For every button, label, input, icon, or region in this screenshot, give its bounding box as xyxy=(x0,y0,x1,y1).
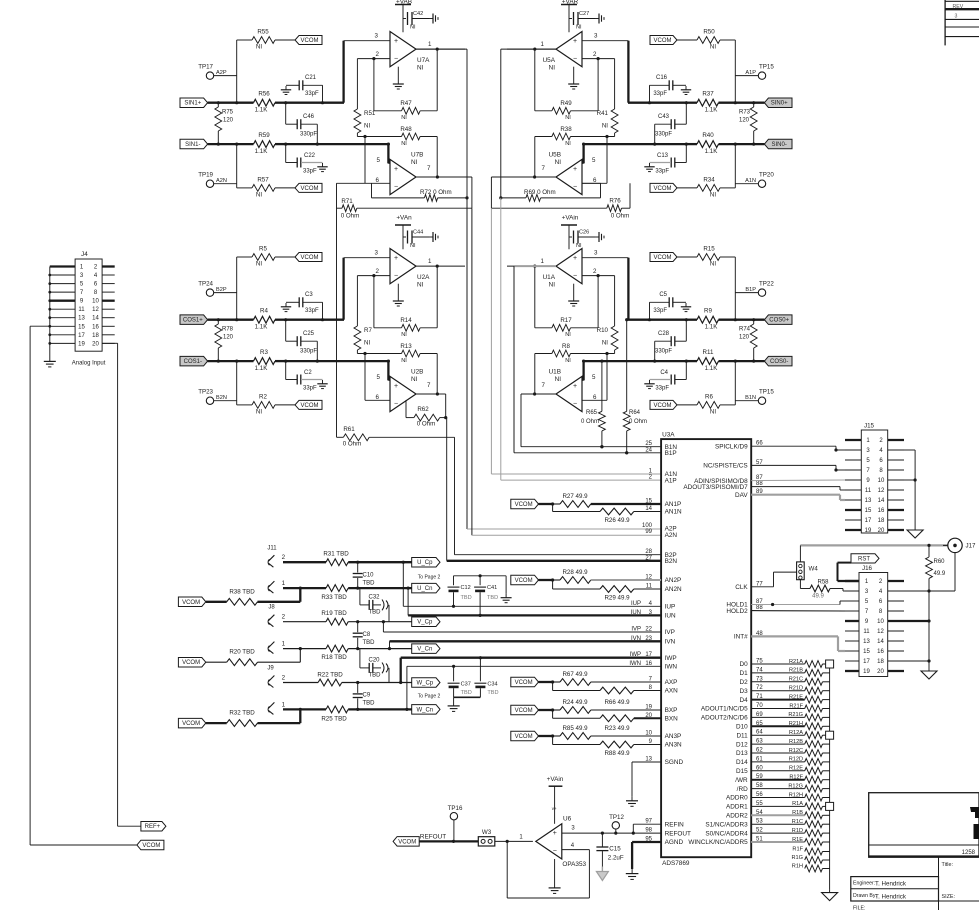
svg-text:SGND: SGND xyxy=(665,759,684,766)
svg-text:v+: v+ xyxy=(552,806,557,811)
svg-text:TP23: TP23 xyxy=(198,389,213,396)
ground xyxy=(501,594,512,603)
svg-text:0 Ohm: 0 Ohm xyxy=(611,213,630,220)
svg-text:18: 18 xyxy=(877,659,884,665)
wire xyxy=(904,450,917,527)
svg-text:S1/NC/ADDR3: S1/NC/ADDR3 xyxy=(705,821,748,828)
svg-text:R64: R64 xyxy=(629,410,641,416)
svg-text:5: 5 xyxy=(592,374,596,381)
svg-text:+: + xyxy=(394,255,398,262)
svg-text:330pF: 330pF xyxy=(655,349,672,355)
svg-text:6: 6 xyxy=(376,177,380,184)
svg-text:15: 15 xyxy=(863,649,870,655)
ground xyxy=(595,232,604,242)
resistor R58 xyxy=(800,580,859,600)
svg-text:A2N: A2N xyxy=(216,178,227,184)
svg-text:IWP: IWP xyxy=(665,655,677,662)
svg-text:NI: NI xyxy=(602,340,608,347)
svg-text:VCOM: VCOM xyxy=(515,734,533,740)
svg-text:TP15: TP15 xyxy=(759,64,774,71)
capacitor C28 xyxy=(653,320,686,363)
svg-text:TP17: TP17 xyxy=(198,64,213,71)
wire xyxy=(582,258,628,320)
wire xyxy=(387,360,390,381)
svg-text:120: 120 xyxy=(739,118,750,124)
svg-text:AN3N: AN3N xyxy=(665,742,682,749)
svg-text:−: − xyxy=(394,273,398,280)
svg-text:−: − xyxy=(573,401,577,408)
resistor R8 xyxy=(535,343,615,394)
ground xyxy=(681,86,691,95)
svg-text:R47: R47 xyxy=(400,100,412,107)
jumper pads xyxy=(826,660,834,810)
svg-text:R88 49.9: R88 49.9 xyxy=(604,750,630,757)
svg-text:R55: R55 xyxy=(257,29,269,36)
svg-text:R49: R49 xyxy=(560,100,572,107)
resistor R67 / resistor R24 (AX input) xyxy=(511,671,661,694)
ground xyxy=(568,67,579,89)
svg-text:NI: NI xyxy=(364,340,370,347)
svg-text:19: 19 xyxy=(863,669,870,675)
svg-text:−: − xyxy=(573,56,577,63)
svg-text:J16: J16 xyxy=(862,565,873,572)
capacitor C44 xyxy=(403,230,429,250)
svg-text:TBD: TBD xyxy=(363,581,376,587)
svg-text:1: 1 xyxy=(282,701,286,708)
wire xyxy=(416,49,469,199)
svg-text:VCOM: VCOM xyxy=(301,255,319,261)
ground xyxy=(626,869,639,879)
svg-text:VCOM: VCOM xyxy=(515,502,533,508)
wire xyxy=(888,553,955,591)
capacitor C46 xyxy=(286,103,319,146)
IC U3A left pin numbers xyxy=(642,441,653,842)
resistor R33 xyxy=(283,585,412,601)
svg-text:NI: NI xyxy=(565,115,571,121)
resistor R18 xyxy=(283,645,412,661)
wire xyxy=(235,360,238,405)
ground xyxy=(822,890,838,901)
resistor R37 xyxy=(628,91,764,114)
resistor R71 xyxy=(337,183,472,437)
svg-text:R1D: R1D xyxy=(792,828,803,834)
svg-text:5: 5 xyxy=(377,157,381,164)
wire xyxy=(734,257,737,321)
capacitor C26 xyxy=(569,230,595,250)
svg-text:R7: R7 xyxy=(364,327,372,334)
svg-text:U7A: U7A xyxy=(417,57,430,64)
svg-text:TP15: TP15 xyxy=(759,389,774,396)
svg-text:Engineer:: Engineer: xyxy=(853,881,875,887)
svg-text:VCOM: VCOM xyxy=(182,721,200,727)
flag VCOM xyxy=(295,183,322,192)
svg-text:R75: R75 xyxy=(222,110,234,116)
svg-text:D12: D12 xyxy=(736,741,748,748)
resistor R78 xyxy=(215,320,234,361)
flag V_Cp xyxy=(412,617,440,627)
resistor R6 xyxy=(677,394,735,416)
svg-text:+: + xyxy=(573,166,577,173)
svg-text:J17: J17 xyxy=(966,543,977,550)
svg-text:C16: C16 xyxy=(656,75,668,81)
capacitor C22 xyxy=(286,144,323,174)
svg-text:R26 49.9: R26 49.9 xyxy=(604,517,630,524)
svg-text:NI: NI xyxy=(565,332,571,338)
wire xyxy=(829,664,831,890)
svg-text:AN2P: AN2P xyxy=(665,577,682,584)
resistor R5 xyxy=(237,246,295,268)
wire xyxy=(734,360,737,405)
svg-text:R25 TBD: R25 TBD xyxy=(321,716,347,723)
svg-text:U2B: U2B xyxy=(411,369,423,376)
op-amp U7A xyxy=(375,32,432,72)
svg-text:NI: NI xyxy=(555,376,562,383)
svg-text:+: + xyxy=(573,38,577,45)
svg-text:73: 73 xyxy=(756,676,763,682)
wire xyxy=(800,544,948,547)
flag W_Cn xyxy=(412,705,440,715)
svg-text:D4: D4 xyxy=(740,697,749,704)
svg-text:COS1+: COS1+ xyxy=(183,318,203,324)
op-amp U5B xyxy=(542,152,597,195)
svg-text:C43: C43 xyxy=(658,114,670,120)
svg-text:V_Cn: V_Cn xyxy=(417,647,432,653)
wire xyxy=(30,326,137,845)
resistor R64 xyxy=(623,318,647,454)
svg-text:27: 27 xyxy=(645,555,652,561)
svg-text:W4: W4 xyxy=(809,566,819,573)
svg-text:VCOM: VCOM xyxy=(654,186,672,192)
svg-text:33pF: 33pF xyxy=(305,91,319,97)
wire xyxy=(416,266,465,396)
op-amp U7B xyxy=(376,152,431,195)
svg-text:R21A: R21A xyxy=(789,659,803,665)
svg-text:120: 120 xyxy=(223,335,234,341)
svg-text:3: 3 xyxy=(594,250,598,257)
svg-text:AN1N: AN1N xyxy=(665,509,682,516)
wire xyxy=(734,143,737,188)
wire xyxy=(433,394,446,418)
svg-text:HOLD2: HOLD2 xyxy=(726,608,748,615)
wire xyxy=(751,601,845,651)
svg-text:+: + xyxy=(573,255,577,262)
resistor R9 xyxy=(628,308,764,331)
svg-text:R12A: R12A xyxy=(789,730,803,736)
wire xyxy=(582,143,585,164)
svg-text:330pF: 330pF xyxy=(655,132,672,138)
svg-text:C8: C8 xyxy=(363,632,371,638)
svg-text:R29 49.9: R29 49.9 xyxy=(604,594,630,601)
svg-text:33pF: 33pF xyxy=(303,386,317,392)
svg-text:R12F: R12F xyxy=(789,775,803,781)
wire xyxy=(554,859,556,884)
svg-text:+: + xyxy=(394,383,398,390)
svg-text:19: 19 xyxy=(78,341,85,347)
svg-text:14: 14 xyxy=(92,316,99,322)
resistor R3 xyxy=(208,349,389,372)
svg-text:0 Ohm: 0 Ohm xyxy=(629,419,647,425)
svg-text:R22 TBD: R22 TBD xyxy=(317,671,343,678)
svg-text:C25: C25 xyxy=(303,331,315,337)
svg-text:R1G: R1G xyxy=(791,855,803,861)
svg-text:R65: R65 xyxy=(586,410,598,416)
svg-text:C37: C37 xyxy=(461,681,471,687)
svg-text:REFOUT: REFOUT xyxy=(420,834,446,841)
svg-text:COS0-: COS0- xyxy=(770,359,788,365)
svg-text:R31 TBD: R31 TBD xyxy=(323,551,349,558)
svg-text:5: 5 xyxy=(377,374,381,381)
svg-text:NI: NI xyxy=(602,123,608,130)
flag COS0- xyxy=(764,356,792,366)
svg-text:D11: D11 xyxy=(736,732,748,739)
revision table xyxy=(945,0,979,45)
wire xyxy=(499,49,556,199)
svg-text:12: 12 xyxy=(92,307,99,313)
wire xyxy=(734,40,737,104)
resistor R4 xyxy=(208,308,344,331)
svg-text:R1C: R1C xyxy=(792,819,803,825)
svg-text:W_Cn: W_Cn xyxy=(416,707,433,713)
svg-text:ADDR1: ADDR1 xyxy=(726,804,748,811)
svg-text:R27 49.9: R27 49.9 xyxy=(562,493,588,500)
svg-text:51: 51 xyxy=(756,837,763,843)
svg-text:1: 1 xyxy=(428,258,432,265)
svg-text:R48: R48 xyxy=(400,126,412,133)
svg-text:R40: R40 xyxy=(702,132,714,139)
svg-text:59: 59 xyxy=(756,774,763,780)
svg-text:R62: R62 xyxy=(417,406,429,413)
svg-text:SIN0+: SIN0+ xyxy=(771,101,788,107)
svg-text:SIN1-: SIN1- xyxy=(185,142,200,148)
svg-text:14: 14 xyxy=(877,639,884,645)
svg-text:VCOM: VCOM xyxy=(515,578,533,584)
svg-text:D2: D2 xyxy=(740,679,749,686)
svg-text:C41: C41 xyxy=(487,585,497,591)
connector J8 xyxy=(268,605,286,654)
svg-text:R74: R74 xyxy=(739,327,751,333)
flag VCOM xyxy=(650,36,677,45)
svg-text:T. Hendrick: T. Hendrick xyxy=(875,894,907,901)
wire (REFIN tie) xyxy=(633,824,661,833)
svg-text:18: 18 xyxy=(92,333,99,339)
svg-text:72: 72 xyxy=(756,685,763,691)
svg-text:NI: NI xyxy=(401,115,407,121)
flag VCOM xyxy=(650,183,677,192)
wire xyxy=(467,198,661,529)
svg-text:B1N: B1N xyxy=(745,395,756,401)
svg-text:28: 28 xyxy=(645,549,652,555)
wire xyxy=(235,257,238,321)
svg-text:A2P: A2P xyxy=(216,70,227,76)
svg-text:R14: R14 xyxy=(400,317,412,324)
svg-text:R76: R76 xyxy=(609,198,621,205)
svg-text:R1H: R1H xyxy=(792,863,803,869)
svg-text:C46: C46 xyxy=(303,114,315,120)
svg-text:NI: NI xyxy=(710,261,716,268)
resistor R24 / resistor R66 (BX input) xyxy=(511,699,661,722)
svg-text:C15: C15 xyxy=(609,846,621,853)
svg-text:7: 7 xyxy=(427,165,431,172)
svg-text:VCOM: VCOM xyxy=(182,660,200,666)
svg-text:R58: R58 xyxy=(817,580,829,586)
svg-text:C5: C5 xyxy=(659,292,667,298)
svg-text:NI: NI xyxy=(364,123,370,130)
svg-text:TP24: TP24 xyxy=(198,281,213,288)
svg-text:OPA353: OPA353 xyxy=(562,861,586,868)
svg-text:5: 5 xyxy=(592,157,596,164)
power symbol +VAin xyxy=(547,776,564,824)
svg-text:B2N: B2N xyxy=(665,558,678,565)
test point TP24 xyxy=(198,281,236,297)
flag VCOM xyxy=(650,400,677,409)
flag VCOM xyxy=(650,253,677,262)
svg-text:NI: NI xyxy=(401,358,407,364)
wire xyxy=(363,135,390,183)
svg-text:NI: NI xyxy=(576,25,582,31)
svg-text:+VAin: +VAin xyxy=(547,776,564,783)
svg-text:R23 49.9: R23 49.9 xyxy=(604,725,630,732)
capacitor C15 xyxy=(596,833,623,866)
flag VCOM / resistor R20 xyxy=(178,649,300,667)
svg-text:J9: J9 xyxy=(267,666,274,672)
wire xyxy=(357,57,390,111)
svg-text:13: 13 xyxy=(78,316,85,322)
svg-text:Analog Input: Analog Input xyxy=(72,361,106,367)
svg-text:2: 2 xyxy=(282,614,286,621)
ground xyxy=(907,527,923,538)
svg-text:C3: C3 xyxy=(305,292,313,298)
op-amp U6 OPA353 xyxy=(536,816,587,869)
svg-text:R15: R15 xyxy=(703,246,715,253)
svg-text:R28 49.9: R28 49.9 xyxy=(562,569,588,576)
svg-text:W3: W3 xyxy=(482,829,492,836)
svg-text:56: 56 xyxy=(756,792,763,798)
svg-text:NI: NI xyxy=(555,159,562,166)
svg-text:64: 64 xyxy=(756,730,763,736)
svg-text:TP19: TP19 xyxy=(198,172,213,179)
svg-text:B2P: B2P xyxy=(216,287,227,293)
wire xyxy=(927,591,930,668)
svg-text:R38: R38 xyxy=(560,126,572,133)
svg-text:R9: R9 xyxy=(704,308,712,315)
svg-text:−: − xyxy=(394,56,398,63)
svg-text:19: 19 xyxy=(865,528,872,534)
svg-text:DAV: DAV xyxy=(735,492,748,499)
ground xyxy=(644,163,654,172)
wire xyxy=(344,258,390,320)
svg-text:3: 3 xyxy=(375,250,379,257)
svg-text:6: 6 xyxy=(593,177,597,184)
svg-text:FILE:: FILE: xyxy=(853,906,865,910)
power symbol +VAn xyxy=(395,215,412,250)
svg-text:D3: D3 xyxy=(740,688,749,695)
capacitor C5 xyxy=(648,292,686,321)
wire (pin 4 / feedback loop) xyxy=(507,841,589,898)
capacitor C43 xyxy=(653,103,686,146)
svg-text:J11: J11 xyxy=(267,546,277,552)
svg-text:C44: C44 xyxy=(413,230,423,236)
ground xyxy=(596,867,608,881)
resistor R38 xyxy=(535,126,615,177)
flag U_Cn xyxy=(412,583,440,593)
resistor R75 xyxy=(215,103,234,144)
resistor R73 xyxy=(739,103,757,144)
svg-text:C9: C9 xyxy=(363,693,371,699)
svg-text:R12C: R12C xyxy=(789,748,803,754)
svg-text:74: 74 xyxy=(756,667,763,673)
test point TP16 xyxy=(448,805,463,841)
svg-text:TBD: TBD xyxy=(369,610,382,616)
svg-text:A2N: A2N xyxy=(665,532,678,539)
IC U3A right pin names (data bus) xyxy=(688,661,748,846)
svg-text:R21B: R21B xyxy=(789,668,803,674)
svg-text:R71: R71 xyxy=(341,198,353,205)
svg-text:IVN: IVN xyxy=(665,639,676,646)
svg-text:7: 7 xyxy=(542,165,546,172)
svg-text:54: 54 xyxy=(756,810,763,816)
svg-text:2: 2 xyxy=(593,51,597,58)
svg-text:NC/SPISTE/CS: NC/SPISTE/CS xyxy=(703,463,747,470)
wire xyxy=(582,135,609,183)
IC U3A right pin names (top) xyxy=(683,441,763,641)
ground xyxy=(429,232,438,242)
svg-text:1.1K: 1.1K xyxy=(705,324,719,331)
svg-text:AXP: AXP xyxy=(665,679,678,686)
power symbol +VAR xyxy=(561,0,579,32)
wire xyxy=(344,41,390,103)
svg-text:NI: NI xyxy=(710,44,716,51)
svg-text:V_Cp: V_Cp xyxy=(417,620,433,626)
resistor R31 xyxy=(283,551,412,566)
svg-text:1.1K: 1.1K xyxy=(255,107,269,114)
svg-text:0 Ohm: 0 Ohm xyxy=(417,421,436,428)
svg-text:C27: C27 xyxy=(579,11,589,17)
svg-text:VCOM: VCOM xyxy=(515,680,533,686)
svg-text:R1B: R1B xyxy=(792,810,803,816)
svg-text:0 Ohm: 0 Ohm xyxy=(343,440,362,447)
svg-text:99: 99 xyxy=(645,529,652,535)
svg-text:33pF: 33pF xyxy=(655,169,669,175)
svg-text:B1P: B1P xyxy=(665,450,677,457)
svg-text:NI: NI xyxy=(710,409,716,416)
title block xyxy=(851,793,979,910)
svg-text:NI: NI xyxy=(256,409,262,416)
svg-text:−: − xyxy=(553,848,557,855)
svg-text:To Page 2: To Page 2 xyxy=(418,574,441,580)
ground xyxy=(644,380,654,389)
svg-text:33pF: 33pF xyxy=(303,169,317,175)
resistor R41 xyxy=(597,59,618,137)
svg-text:AN1P: AN1P xyxy=(665,501,682,508)
wire xyxy=(102,343,141,826)
wire xyxy=(447,418,661,561)
svg-text:R10: R10 xyxy=(597,327,609,334)
svg-text:NI: NI xyxy=(411,159,418,166)
connector J4 xyxy=(48,251,114,367)
svg-text:R57: R57 xyxy=(257,177,269,184)
svg-text:VCOM: VCOM xyxy=(142,843,160,849)
svg-text:33pF: 33pF xyxy=(653,91,667,97)
svg-text:SIN0-: SIN0- xyxy=(772,142,787,148)
svg-text:WINCLK/NC/ADDR5: WINCLK/NC/ADDR5 xyxy=(688,839,748,846)
flag VCOM / resistor R32 xyxy=(178,709,300,728)
svg-text:16: 16 xyxy=(92,324,99,330)
capacitor C32 xyxy=(360,588,389,622)
svg-text:ADDR0: ADDR0 xyxy=(726,795,748,802)
svg-text:BXP: BXP xyxy=(665,707,678,714)
svg-text:R32 TBD: R32 TBD xyxy=(229,710,255,717)
svg-text:1.1K: 1.1K xyxy=(705,148,719,155)
